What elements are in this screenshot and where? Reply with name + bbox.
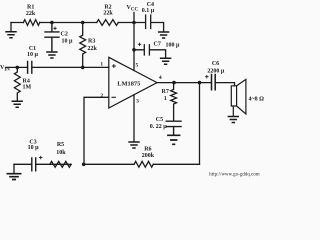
svg-text:R5: R5 bbox=[57, 142, 64, 148]
svg-text:2: 2 bbox=[100, 93, 103, 99]
svg-text:10 µ: 10 µ bbox=[28, 145, 40, 151]
svg-text:R3: R3 bbox=[88, 38, 95, 44]
wire top rail left bbox=[11, 22, 134, 24]
svg-text:1: 1 bbox=[164, 96, 167, 102]
node output/feedback bbox=[198, 81, 202, 85]
ground G1 top-left bbox=[10, 23, 12, 32]
node R3 bottom bbox=[81, 66, 85, 70]
svg-text:C6: C6 bbox=[212, 61, 219, 67]
ground C4 bbox=[158, 32, 169, 38]
svg-text:3: 3 bbox=[136, 99, 139, 105]
resistor R3 bbox=[80, 23, 86, 68]
capacitor C6 bbox=[212, 75, 216, 90]
op-amp U1 LM1875 bbox=[109, 57, 157, 108]
svg-text:C5: C5 bbox=[156, 117, 163, 123]
plus C2 bbox=[53, 27, 56, 30]
capacitor C5 bbox=[166, 121, 181, 134]
ground speaker bbox=[228, 117, 239, 123]
node Vcc bbox=[132, 21, 136, 25]
svg-text:2200 µ: 2200 µ bbox=[207, 68, 225, 74]
svg-text:C7: C7 bbox=[154, 42, 161, 48]
node R1/C2 bbox=[50, 21, 54, 25]
wire pin2 feedback bbox=[84, 97, 109, 164]
capacitor C7 bbox=[134, 45, 166, 58]
ground C2 bbox=[46, 52, 57, 58]
resistor R4 bbox=[14, 67, 20, 101]
svg-text:4: 4 bbox=[159, 75, 162, 81]
node R3 top bbox=[81, 21, 85, 25]
svg-text:0. 22 µ: 0. 22 µ bbox=[150, 124, 168, 130]
svg-text:5: 5 bbox=[136, 62, 139, 68]
svg-text:R2: R2 bbox=[104, 4, 111, 10]
svg-text:http://www.go-gddq.com: http://www.go-gddq.com bbox=[209, 173, 260, 178]
resistor R1 bbox=[23, 20, 39, 26]
plus C6 bbox=[205, 75, 208, 78]
polarity marks bbox=[39, 27, 209, 160]
svg-text:10 µ: 10 µ bbox=[62, 38, 74, 44]
resistor R2 bbox=[97, 20, 119, 26]
svg-text:R1: R1 bbox=[27, 4, 34, 10]
node Vin/R4 bbox=[15, 66, 19, 70]
resistor R5 bbox=[50, 161, 71, 167]
capacitor C2 bbox=[45, 23, 59, 52]
ground G1 bbox=[5, 32, 16, 38]
svg-text:R6: R6 bbox=[144, 146, 151, 152]
wire feedback vertical bbox=[199, 83, 201, 165]
node pin2/R5/R6 bbox=[82, 163, 86, 167]
ground C3 bbox=[7, 174, 22, 180]
svg-text:1: 1 bbox=[100, 62, 103, 68]
svg-text:R7: R7 bbox=[162, 89, 169, 95]
speaker LS1 bbox=[231, 79, 246, 116]
wire output bbox=[157, 83, 235, 86]
svg-text:22k: 22k bbox=[103, 11, 113, 17]
wire pin3 ground bbox=[133, 95, 135, 142]
capacitor C4 bbox=[134, 15, 164, 32]
svg-text:C2: C2 bbox=[61, 31, 68, 37]
input wire Vin bbox=[6, 66, 109, 68]
node output/R7 bbox=[172, 81, 176, 85]
ground R4 bbox=[12, 101, 23, 107]
svg-text:10k: 10k bbox=[56, 150, 66, 156]
ground C7 bbox=[160, 58, 171, 64]
svg-text:LM1875: LM1875 bbox=[117, 80, 140, 87]
capacitor C1 bbox=[28, 62, 32, 74]
node C7 tap bbox=[132, 48, 136, 52]
svg-text:0.1 µ: 0.1 µ bbox=[142, 8, 155, 14]
svg-text:4~8 Ω: 4~8 Ω bbox=[249, 96, 265, 102]
plus C7 bbox=[138, 43, 141, 46]
svg-text:200k: 200k bbox=[142, 153, 155, 159]
svg-text:22k: 22k bbox=[88, 46, 98, 52]
ground C5 bbox=[167, 135, 180, 144]
svg-text:10 µ: 10 µ bbox=[27, 52, 39, 58]
wire bottom rail bbox=[14, 163, 200, 165]
wire Vcc rail bbox=[133, 13, 135, 71]
svg-text:1M: 1M bbox=[23, 84, 32, 90]
wire C3 ground lead bbox=[13, 164, 15, 173]
svg-text:C4: C4 bbox=[147, 2, 154, 8]
svg-text:22k: 22k bbox=[26, 11, 36, 17]
svg-text:100 µ: 100 µ bbox=[166, 42, 181, 48]
plus C3 bbox=[39, 156, 42, 159]
resistor R7 bbox=[171, 83, 177, 121]
resistor R6 bbox=[134, 161, 153, 167]
capacitor C3 bbox=[32, 158, 36, 171]
ground pin3 bbox=[128, 142, 139, 148]
